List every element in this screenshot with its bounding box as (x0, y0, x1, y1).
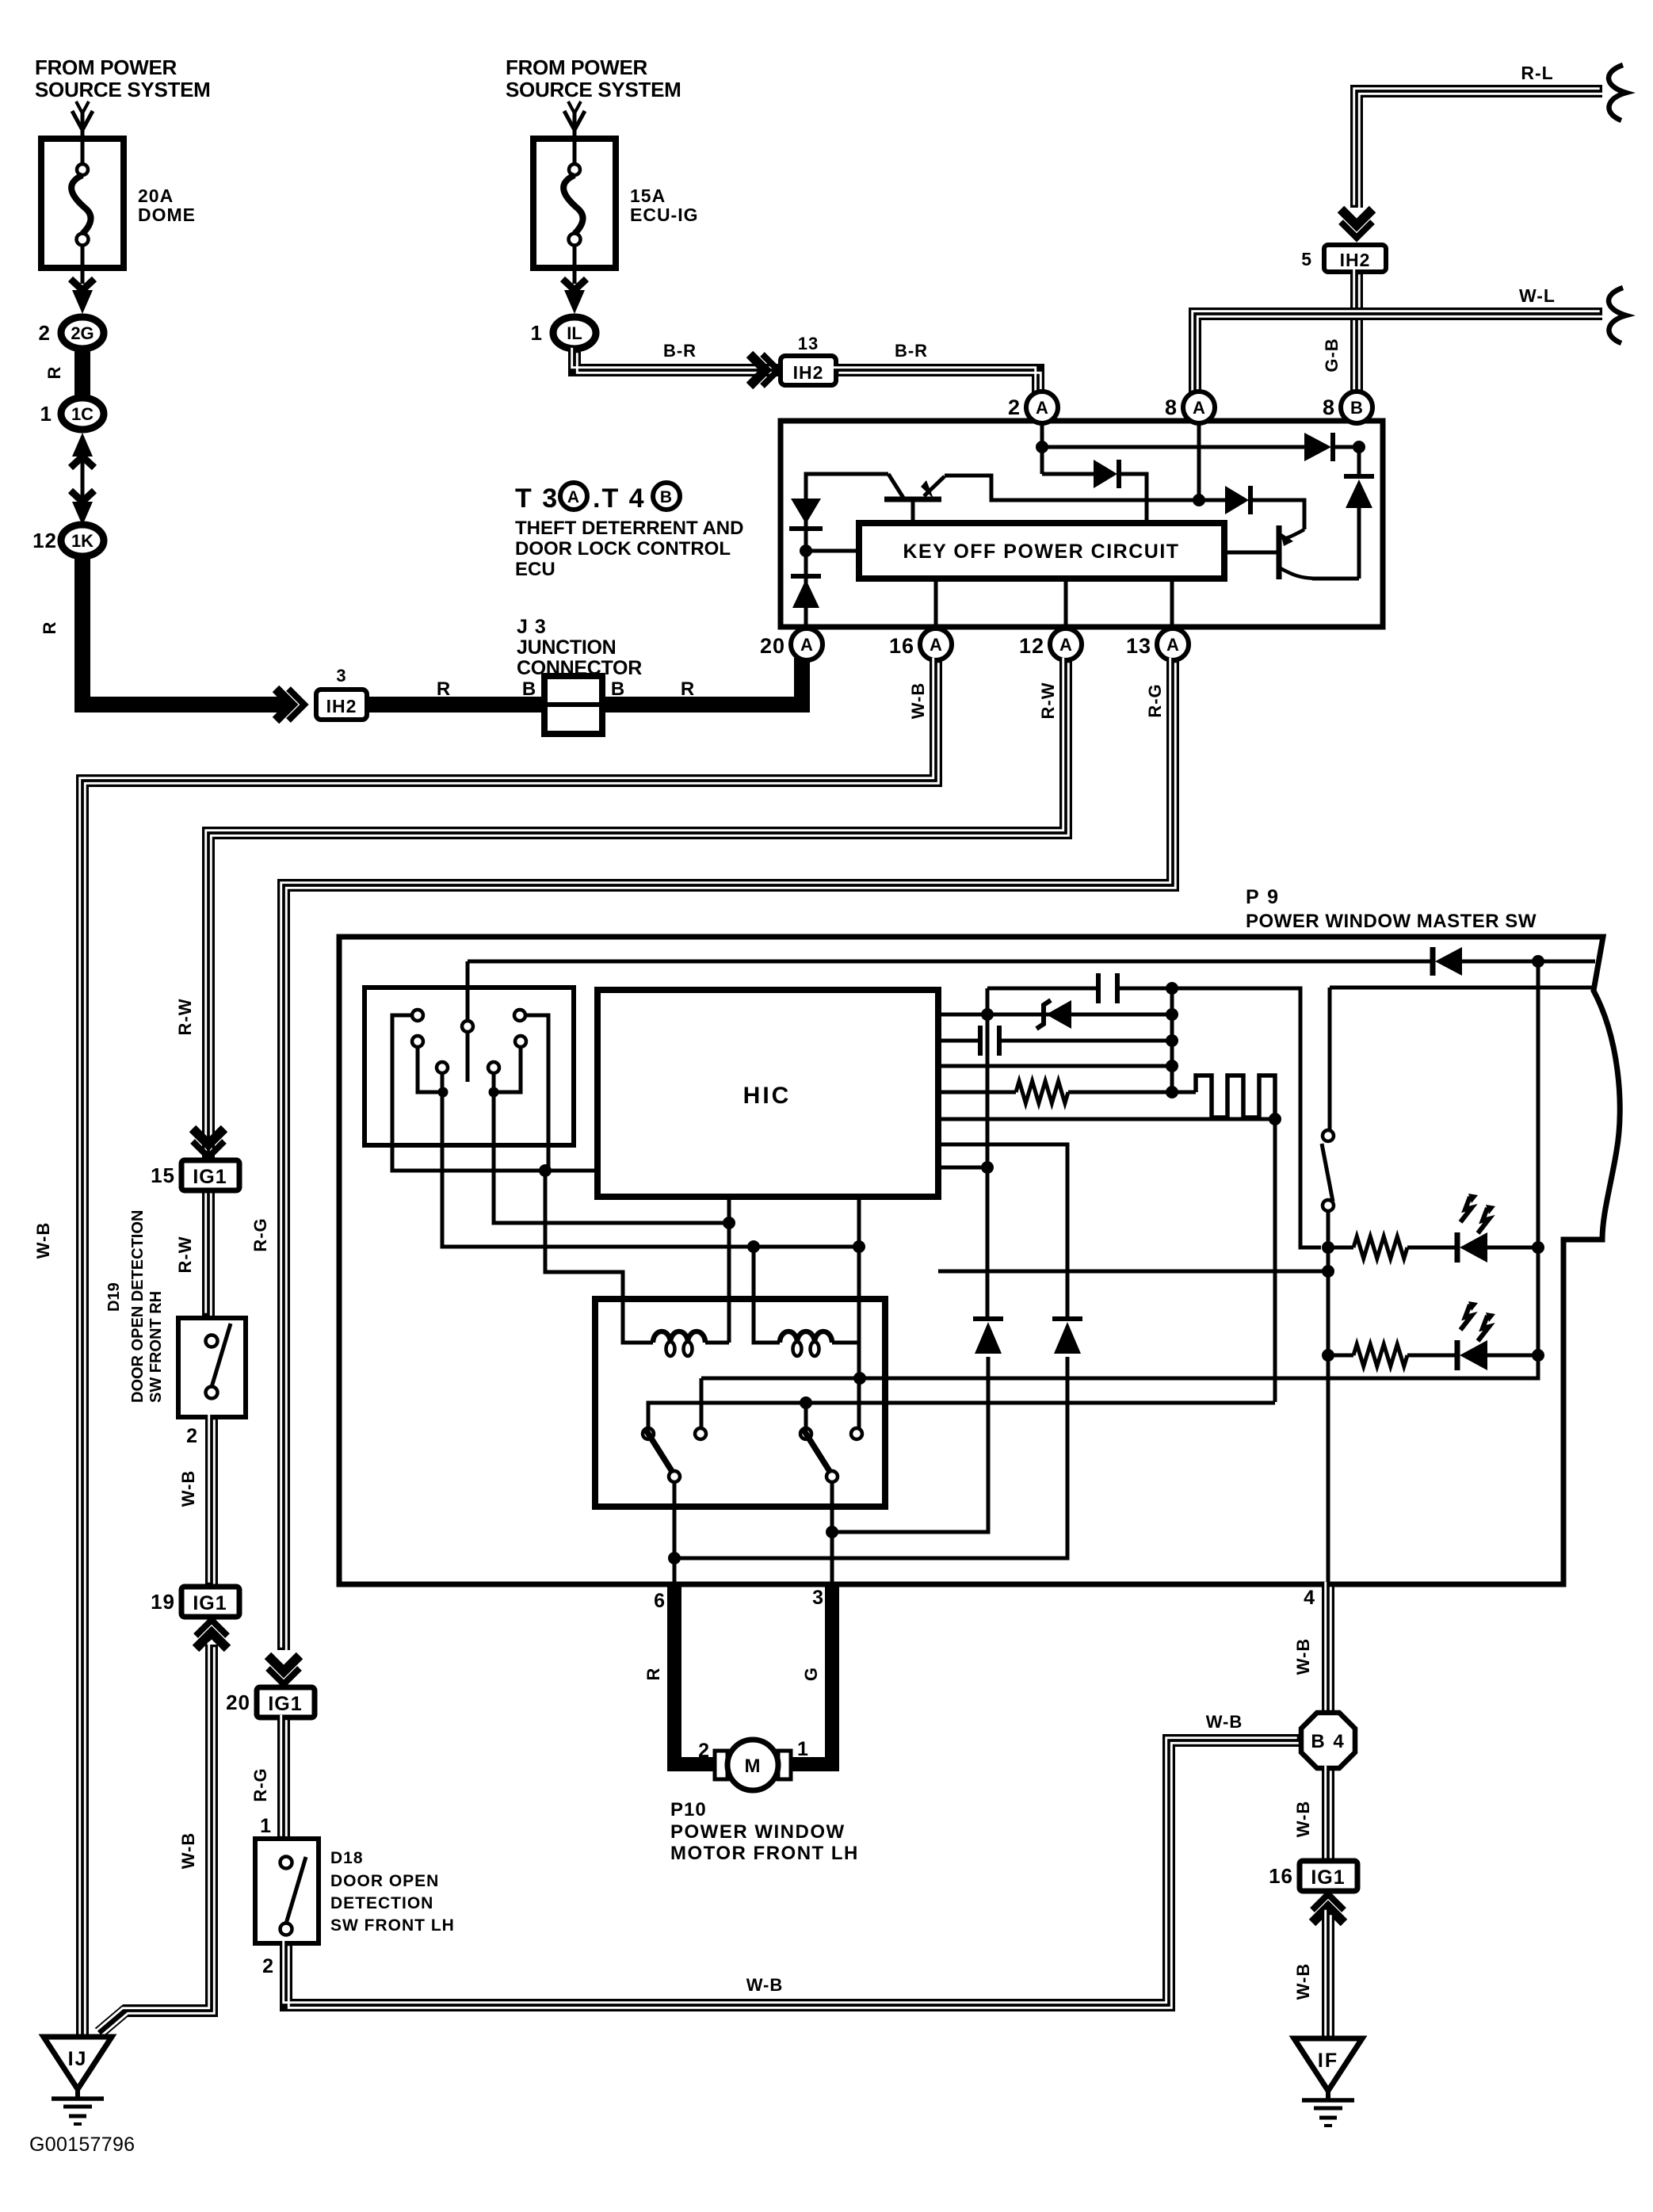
chevron right before IH2 (13) (762, 354, 778, 386)
vertical diode below 8B (1357, 447, 1361, 476)
row: plain (938, 1064, 1172, 1068)
svg-text:6: 6 (654, 1590, 666, 1612)
wire R (thick) 1K down and right to IH2 (82, 556, 287, 705)
svg-text:2: 2 (262, 1955, 274, 1977)
stubs to bottom pins (934, 579, 938, 627)
svg-text:G: G (801, 1667, 821, 1681)
svg-text:R-G: R-G (1145, 683, 1165, 717)
pin 8A internal stub (1197, 422, 1201, 500)
svg-text:A: A (567, 488, 580, 506)
svg-text:IH2: IH2 (1340, 250, 1371, 270)
wire B-R from IH2 to ECU pin 2A (836, 370, 1038, 396)
vertical from meander down (1273, 1119, 1277, 1402)
svg-text:8: 8 (1165, 395, 1178, 419)
wire R-W from pin 12A down-left-down (208, 660, 1066, 1316)
svg-text:IJ: IJ (68, 2048, 88, 2070)
svg-text:SOURCE SYSTEM: SOURCE SYSTEM (506, 78, 681, 101)
svg-text:ECU: ECU (515, 559, 555, 580)
HIC hybrid IC box (597, 990, 938, 1197)
chevron down before 20 IG1 (268, 1668, 300, 1684)
svg-text:JUNCTION: JUNCTION (517, 636, 616, 659)
svg-text:G00157796: G00157796 (29, 2134, 135, 2156)
svg-text:15: 15 (151, 1163, 175, 1187)
row h (938, 1270, 1328, 1274)
row d: resistor (938, 1091, 1016, 1095)
wire down to key sw (1328, 988, 1332, 1130)
svg-text:1K: 1K (71, 531, 94, 551)
junction connector 3 IH2 (316, 690, 367, 720)
svg-text:G-B: G-B (1322, 338, 1342, 372)
svg-text:THEFT DETERRENT AND: THEFT DETERRENT AND (515, 518, 743, 539)
svg-text:12: 12 (1019, 634, 1044, 658)
svg-text:DOOR LOCK CONTROL: DOOR LOCK CONTROL (515, 538, 731, 560)
svg-text:2: 2 (39, 321, 51, 345)
svg-text:1: 1 (797, 1738, 809, 1760)
pin 2A internal wiring (1040, 422, 1044, 474)
wire W-B from pin 16A down-left-down to ground IJ (82, 660, 936, 2037)
HIC pin to coil2 right and down to switch (857, 1197, 861, 1429)
wire W-L from right continuation to ECU pin 8A (1195, 314, 1602, 396)
svg-text:IG1: IG1 (193, 1592, 227, 1614)
wire key sw to pin 4 (1327, 1211, 1330, 1584)
chevron down before IH2 (5) (1341, 222, 1372, 238)
svg-text:16: 16 (1269, 1864, 1293, 1888)
diode vert 1 (973, 1316, 1003, 1321)
diode after 2A (1042, 472, 1094, 476)
LED row 2 with resistor (1328, 1354, 1353, 1358)
ECU pin 8 (A) (1183, 392, 1215, 423)
key off power circuit box (859, 523, 1224, 579)
svg-text:T 3: T 3 (515, 483, 559, 514)
svg-text:1: 1 (40, 402, 52, 426)
wire: feed arrow into 20A fuse (81, 109, 85, 136)
svg-text:DOOR OPEN: DOOR OPEN (330, 1872, 439, 1890)
svg-text:B: B (522, 678, 536, 700)
chevron up below 16 IG1 (1312, 1894, 1344, 1910)
wire R-L from right continuation down to IH2 (5) (1357, 91, 1602, 208)
double arrow between 1C and 1K (72, 433, 93, 457)
wire W-B from 19 IG1 to ground IJ (99, 1645, 212, 2033)
svg-text:B 4: B 4 (1311, 1731, 1345, 1752)
contact to HIC-bottom wire 1 (442, 1073, 859, 1247)
svg-text:IG1: IG1 (193, 1166, 227, 1188)
svg-text:3: 3 (812, 1587, 824, 1609)
fuse 15A ECU-IG (533, 139, 616, 268)
svg-text:P 9: P 9 (1246, 886, 1280, 908)
svg-text:1: 1 (531, 321, 543, 345)
ECU pin 16 (A) (920, 628, 952, 660)
svg-text:J 3: J 3 (517, 616, 547, 638)
svg-text:SW FRONT RH: SW FRONT RH (147, 1291, 165, 1403)
diode pair at pin 20A branch (806, 474, 888, 627)
svg-text:20: 20 (226, 1691, 250, 1714)
chevron down before 15 IG1 (193, 1141, 224, 1157)
HIC pin to coil1 right (727, 1197, 731, 1343)
svg-text:.T 4: .T 4 (593, 483, 646, 514)
connector 16 IG1 (1300, 1861, 1357, 1891)
svg-text:IG1: IG1 (268, 1693, 302, 1715)
svg-text:15A: 15A (630, 185, 666, 206)
svg-text:W-B: W-B (33, 1222, 53, 1259)
diode to 8B node (1304, 433, 1331, 461)
wire B-R from IL to IH2 (13) (575, 350, 1038, 370)
svg-text:A: A (1166, 635, 1179, 655)
rows to relay diodes (938, 1144, 1067, 1317)
svg-text:P10: P10 (670, 1799, 707, 1820)
svg-text:D18: D18 (330, 1849, 364, 1867)
svg-text:1C: 1C (71, 404, 94, 424)
wire from post up (466, 961, 470, 1021)
svg-text:R-W: R-W (175, 999, 195, 1036)
svg-text:2: 2 (1008, 395, 1021, 419)
meander resistor (1172, 1091, 1196, 1095)
svg-text:W-B: W-B (178, 1832, 198, 1870)
svg-text:W-B: W-B (746, 1975, 784, 1995)
row b: zener diode (938, 1013, 1172, 1017)
svg-text:SOURCE SYSTEM: SOURCE SYSTEM (35, 78, 210, 101)
svg-text:A: A (930, 635, 942, 655)
svg-text:W-B: W-B (1293, 1638, 1313, 1675)
svg-text:2: 2 (186, 1425, 198, 1447)
door open detection switch D18 (255, 1839, 319, 1943)
svg-text:R: R (643, 1668, 663, 1681)
svg-text:FROM POWER: FROM POWER (506, 55, 648, 79)
ECU pin 20 (A) (791, 628, 823, 660)
wire W-B B4 to 16 IG1 (1322, 1768, 1334, 1861)
contact to HIC-bottom wire 2 (494, 1073, 729, 1223)
svg-text:2G: 2G (71, 323, 94, 343)
wire from post to top diode (468, 960, 1433, 964)
junction column (1170, 988, 1174, 1092)
svg-text:W-B: W-B (1206, 1712, 1243, 1732)
svg-text:3: 3 (336, 666, 346, 686)
svg-text:R-W: R-W (1038, 682, 1058, 720)
svg-text:A: A (800, 635, 813, 655)
coil1 left lead (545, 1176, 653, 1343)
svg-text:13: 13 (1126, 634, 1151, 658)
junction connector J3 (544, 676, 602, 734)
svg-text:W-B: W-B (178, 1470, 198, 1507)
svg-text:R: R (681, 678, 695, 700)
connector B4 (octagon) (1301, 1713, 1355, 1768)
svg-text:IH2: IH2 (326, 696, 357, 716)
svg-text:20: 20 (760, 634, 785, 658)
relay box with coils and switches (595, 1299, 885, 1507)
svg-text:R-G: R-G (250, 1217, 270, 1251)
svg-text:12: 12 (32, 529, 57, 552)
svg-text:DOOR OPEN DETECTION: DOOR OPEN DETECTION (129, 1210, 147, 1403)
svg-text:IL: IL (567, 323, 582, 343)
svg-text:SW FRONT LH: SW FRONT LH (330, 1916, 455, 1935)
svg-text:A: A (1193, 398, 1205, 418)
wire to key-off box (806, 549, 859, 553)
wire LED2 to relay sw (701, 1355, 1538, 1378)
motor P10 (715, 1751, 727, 1779)
wire W-B 16 IG1 to ground IF (1322, 1912, 1334, 2038)
svg-text:CONNECTOR: CONNECTOR (517, 657, 642, 679)
top diode inside P9 (1435, 947, 1462, 976)
wire W-B from D19 to 19 IG1 (205, 1417, 218, 1585)
wire: fuse to connector 2G (72, 290, 93, 314)
row a: capacitor to top (987, 987, 1098, 991)
switch contact assembly (window sw) (365, 988, 574, 1145)
ECU pin 8 (B) (1341, 392, 1372, 423)
connector 1 (1C) (61, 398, 104, 430)
svg-text:R: R (40, 621, 59, 635)
svg-text:POWER WINDOW: POWER WINDOW (670, 1821, 846, 1843)
svg-text:R-G: R-G (250, 1767, 270, 1801)
svg-text:A: A (1059, 635, 1072, 655)
key operated switch (1323, 1130, 1334, 1141)
connector 15 IG1 (181, 1160, 239, 1190)
thick wires to power window motor (674, 1584, 717, 1764)
thick wire R / B through J3 to ECU pin 20 (367, 697, 544, 713)
connector 20 IG1 (257, 1687, 315, 1717)
svg-text:R-W: R-W (175, 1236, 195, 1274)
door open detection switch D19 (178, 1318, 246, 1417)
svg-text:M: M (745, 1755, 762, 1777)
svg-text:ECU-IG: ECU-IG (630, 204, 699, 225)
wire: feed arrow into 15A fuse (573, 109, 577, 136)
coil2 left lead (754, 1247, 780, 1343)
ground IF (1294, 2038, 1362, 2091)
svg-text:W-B: W-B (1293, 1963, 1313, 2000)
svg-text:19: 19 (151, 1590, 175, 1614)
svg-text:R-L: R-L (1521, 63, 1553, 83)
svg-text:16: 16 (889, 634, 914, 658)
wire R (thick) 2G to 1C (74, 349, 90, 399)
svg-text:A: A (1036, 398, 1048, 418)
transistor Q1 (884, 497, 941, 502)
svg-text:KEY OFF POWER CIRCUIT: KEY OFF POWER CIRCUIT (903, 541, 1179, 563)
LED row 1 with resistor (1328, 1246, 1353, 1250)
wire row to relay sw left (648, 1403, 1275, 1429)
connector 19 IG1 (181, 1587, 239, 1617)
svg-text:B: B (1350, 398, 1363, 418)
transistor Q2 (1277, 525, 1282, 579)
svg-text:1: 1 (260, 1815, 272, 1837)
svg-text:FROM POWER: FROM POWER (35, 55, 178, 79)
svg-text:2: 2 (698, 1740, 710, 1762)
connector 1 (IL) (553, 317, 596, 349)
diode vert 2 (1052, 1316, 1082, 1321)
svg-text:W-L: W-L (1519, 285, 1556, 306)
svg-text:HIC: HIC (743, 1083, 792, 1109)
theft deterrent / door lock control ECU box (781, 421, 1383, 627)
svg-text:IH2: IH2 (793, 362, 824, 383)
svg-text:W-B: W-B (1293, 1801, 1313, 1838)
svg-text:R: R (437, 678, 451, 700)
ECU pin 2 (A) (1026, 392, 1058, 423)
svg-text:DETECTION: DETECTION (330, 1894, 433, 1912)
diode mid right (1199, 499, 1225, 502)
wire R-G from pin 13A down-left-down (284, 660, 1173, 1650)
center post (466, 1032, 470, 1082)
junction connector 13 IH2 (781, 356, 836, 385)
fuse 20A DOME (41, 139, 124, 268)
row c: capacitor (938, 1039, 980, 1043)
wire W-B from D18 pin2 right to B4 (286, 1740, 1300, 2005)
svg-text:B-R: B-R (895, 341, 928, 361)
svg-text:5: 5 (1301, 249, 1312, 269)
svg-text:D19: D19 (105, 1282, 123, 1312)
svg-text:4: 4 (1304, 1587, 1315, 1609)
ground IJ (44, 2037, 112, 2089)
svg-text:R: R (44, 366, 64, 380)
connector 12 (1K) (61, 525, 104, 556)
vertical right collector wire (1537, 961, 1540, 1355)
ECU pin 12 (A) (1050, 628, 1082, 660)
relay contacts (SPDT x2) (643, 1428, 654, 1439)
svg-text:B: B (611, 678, 625, 700)
svg-text:IG1: IG1 (1311, 1866, 1345, 1889)
contact wiring right (525, 1015, 548, 1171)
svg-text:B: B (660, 488, 673, 506)
ECU pin 13 (A) (1157, 628, 1189, 660)
svg-text:B-R: B-R (663, 341, 697, 361)
svg-text:8: 8 (1323, 395, 1335, 419)
svg-text:IF: IF (1318, 2050, 1338, 2072)
row e (938, 1117, 1275, 1121)
chevron right before IH2 (3) (288, 689, 304, 720)
svg-text:13: 13 (798, 334, 819, 353)
svg-text:20A: 20A (138, 185, 174, 206)
wire to right continuation (1330, 986, 1595, 990)
chevron up below 19 IG1 (196, 1620, 227, 1636)
cross wires to diodes (674, 1357, 1067, 1558)
wire G-B from IH2 to ECU pin 8B (1350, 272, 1363, 396)
svg-text:POWER WINDOW MASTER SW: POWER WINDOW MASTER SW (1246, 911, 1537, 932)
connector 2 (2G) (61, 317, 104, 349)
wire W-B pin4 to B4 (1322, 1584, 1334, 1713)
svg-text:MOTOR FRONT LH: MOTOR FRONT LH (670, 1843, 859, 1864)
svg-text:W-B: W-B (908, 682, 928, 720)
svg-text:DOME: DOME (138, 204, 196, 225)
contact wiring left (392, 1015, 597, 1171)
junction connector 5 IH2 (1324, 245, 1386, 272)
